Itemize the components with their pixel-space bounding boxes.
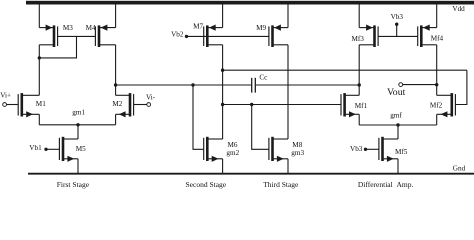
svg-text:Vi-: Vi- — [146, 94, 156, 102]
svg-text:gm1: gm1 — [72, 109, 85, 117]
svg-text:gm2: gm2 — [226, 149, 239, 157]
svg-text:M3: M3 — [63, 24, 73, 32]
svg-text:Vdd: Vdd — [452, 5, 465, 13]
svg-text:M5: M5 — [76, 145, 86, 153]
svg-text:M6: M6 — [228, 141, 238, 149]
svg-text:gm3: gm3 — [291, 149, 304, 157]
svg-text:Mf3: Mf3 — [352, 35, 365, 43]
svg-text:Mf5: Mf5 — [395, 148, 408, 156]
svg-text:M8: M8 — [292, 141, 302, 149]
svg-text:Vb3: Vb3 — [391, 13, 404, 21]
svg-text:Mf1: Mf1 — [355, 102, 368, 110]
svg-text:Vi+: Vi+ — [0, 92, 11, 100]
svg-text:Vb3: Vb3 — [350, 145, 363, 153]
svg-text:M4: M4 — [86, 24, 96, 32]
svg-text:Vb1: Vb1 — [29, 144, 42, 152]
svg-text:Vout: Vout — [387, 87, 406, 98]
svg-text:Gnd: Gnd — [453, 164, 466, 172]
svg-text:M7: M7 — [193, 23, 203, 31]
svg-text:M1: M1 — [36, 100, 46, 108]
svg-text:Second Stage: Second Stage — [185, 180, 226, 189]
svg-text:Cc: Cc — [259, 74, 267, 82]
svg-text:First Stage: First Stage — [57, 180, 90, 189]
svg-text:Differential Amp.: Differential Amp. — [358, 180, 414, 189]
svg-text:Third Stage: Third Stage — [263, 180, 299, 189]
svg-text:Vb2: Vb2 — [171, 30, 184, 38]
svg-text:gmf: gmf — [390, 111, 402, 119]
svg-text:Mf2: Mf2 — [430, 102, 443, 110]
svg-text:M9: M9 — [256, 24, 266, 32]
svg-text:M2: M2 — [112, 100, 122, 108]
svg-text:Mf4: Mf4 — [431, 34, 444, 42]
